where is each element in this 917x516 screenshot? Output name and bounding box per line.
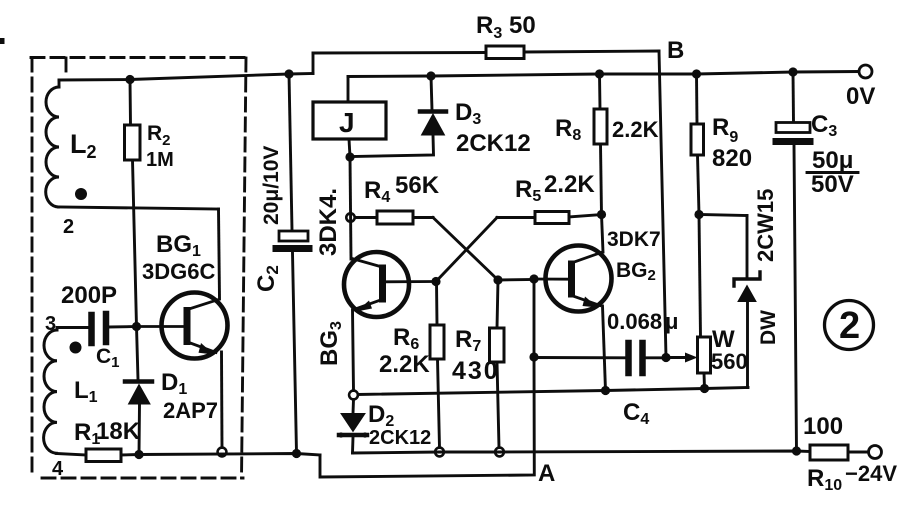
svg-text:56K: 56K [395,172,440,199]
junction ring: R6 bottom [435,448,444,457]
junction ring: BG3 emitter / D2 / emitter rail [349,391,358,400]
zener diode DW [699,215,760,388]
svg-text:50V: 50V [811,171,854,198]
capacitor C4 [534,343,666,373]
svg-text:2.2K: 2.2K [612,117,659,142]
wire: cross coupling R5 to BG3 base [436,218,497,282]
svg-text:μ: μ [665,309,678,334]
resistor R1 [56,449,121,462]
junction: D1 bottom [134,450,143,459]
junction: C3 top on rail [788,67,797,76]
polarity dot L1 [70,342,82,354]
svg-text:B: B [667,37,684,64]
svg-text:2CK12: 2CK12 [456,130,531,157]
resistor R5 [497,212,602,224]
inductor L1 [44,330,57,453]
svg-text:1M: 1M [146,149,174,171]
junction node at R4 left (small ring) [346,213,354,221]
svg-text:4: 4 [52,458,64,480]
page edge mark [0,38,5,44]
svg-text:430: 430 [452,357,500,385]
wire: BG2 collector up [602,215,604,253]
svg-text:0V: 0V [846,83,875,110]
potentiometer W [698,215,711,389]
wire: down to BG3 collector [350,157,351,259]
svg-text:560: 560 [711,349,748,374]
diode D1 [125,327,152,455]
junction: R8 top on rail [595,69,604,78]
resistor R4 [355,211,433,224]
svg-text:2AP7: 2AP7 [163,398,218,423]
resistor R2 [125,80,141,327]
svg-text:0.068: 0.068 [607,309,662,334]
resistor R9 [691,74,704,215]
diode D3 [352,76,446,157]
svg-text:20μ/10V: 20μ/10V [260,146,283,225]
svg-text:2CK12: 2CK12 [369,427,431,449]
svg-text:DW: DW [757,310,780,345]
wire: J bottom to junction [349,139,350,157]
polarity dot L2 [75,188,87,200]
fraction bar [807,171,858,174]
wire: L2 bottom to BG1 collector corner [58,207,218,209]
resistor R7 [490,280,505,448]
junction: BG2 emitter on rail [601,386,610,395]
wire: BG2 emitter down [603,306,606,391]
junction: C4 right / node B line / wiper [661,353,670,362]
wire: jog up to R3 rail [312,53,315,74]
svg-text:50μ: 50μ [812,147,853,174]
svg-text:200P: 200P [61,282,117,309]
terminal 0V [859,65,872,78]
svg-text:2: 2 [63,216,74,238]
wire: BG2 base line [498,278,534,281]
junction: R9 top on rail [692,69,701,78]
wire: drop to relay J [347,77,350,103]
svg-text:50: 50 [509,12,536,39]
junction: R5 right / R8 bottom / BG2 collector [597,210,606,219]
transistor BG3 [344,252,436,317]
junction: BG1 base node [132,322,141,331]
svg-text:2CW15: 2CW15 [753,189,778,262]
resistor R8 [594,74,607,215]
wire: BG3 emitter down [353,310,354,391]
wire: top rail from L2 top to corner [59,74,313,81]
svg-text:A: A [538,460,555,487]
svg-text:−24V: −24V [845,461,897,486]
inductor L2 [46,80,59,207]
wire: R3 rail right segment to node B [524,51,659,52]
dashed enclosure box of pickup unit [31,58,246,479]
junction: BG2 base / R7 / coupling [493,275,502,284]
junction: BG3 base / R6 [431,277,440,286]
sheet symbol circled 2 [825,301,874,350]
svg-text:3DK4.: 3DK4. [315,188,342,256]
wire: emitter rail [358,388,748,395]
capacitor C3 [776,72,810,451]
wire: node B vertical down to C4 right node [659,51,666,357]
junction: C2 top on rail [284,69,293,78]
junction: C2 bottom [292,449,301,458]
transistor BG2 [534,246,612,312]
capacitor C2 [276,74,309,453]
junction ring: BG1 emitter on bottom rail [218,448,227,457]
wire: cross coupling R4 to BG2 base [433,218,498,281]
junction: BG2 base / C4 branch [529,274,538,283]
diode D2 [338,400,367,454]
junction: D3 top on rail [426,71,435,80]
capacitor C1 [57,314,137,343]
junction: J bottom / D3 anode [345,152,354,161]
junction: C4 left [529,352,538,361]
wire: BG1 collector drop [219,209,220,299]
svg-text:3DG6C: 3DG6C [142,259,215,284]
junction: W bottom on emitter rail [700,384,709,393]
junction ring: R7 bottom [495,448,504,457]
svg-text:2.2K: 2.2K [379,351,430,378]
svg-text:820: 820 [712,145,752,172]
junction: R9 bottom node [694,210,703,219]
wire: R3 rail left segment [313,51,486,54]
wire: upper supply rail to 0V terminal [348,72,859,77]
junction: C3 bottom on -24V rail [792,446,801,455]
transistor BG1 [137,293,228,359]
wire: bottom rail of pickup circuit [121,454,320,456]
wire: -24V rail [353,451,811,453]
resistor R3 body [486,46,524,59]
wire: wiper arm with arrow to W [666,353,698,363]
svg-text:100: 100 [803,413,843,440]
resistor R6 [430,282,444,448]
svg-text:2.2K: 2.2K [544,171,595,198]
svg-text:J: J [339,107,355,138]
terminal -24V [869,446,882,459]
wire: node A branch from BG2 base down [320,279,534,477]
svg-text:18K: 18K [96,418,141,445]
resistor R10 [810,445,869,460]
junction: R2 top on rail [125,75,134,84]
relay J box [313,102,386,139]
wire: BG1 emitter down [220,352,223,448]
svg-text:3DK7: 3DK7 [607,228,661,251]
svg-text:2: 2 [839,305,860,347]
